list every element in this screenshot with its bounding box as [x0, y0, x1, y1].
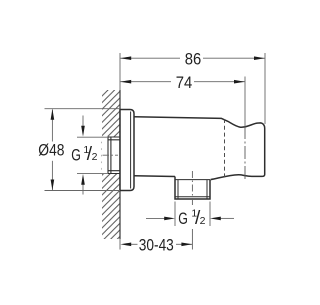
hose nipple G1/2 [175, 177, 210, 200]
hidden cone line (dashed) [224, 119, 226, 178]
svg-text:G: G [178, 209, 188, 228]
extension lines dim 86/74 left [119, 53, 121, 90]
G1/2 wall arrows [81, 116, 85, 195]
dimension D48 extension lines [45, 108, 121, 110]
body top edge and holder outline [134, 117, 265, 180]
in-wall thread socket G1/2 [108, 137, 120, 174]
wall hatch [102, 90, 121, 239]
dimension 30-43 [120, 236, 192, 255]
flange inner edge [130, 112, 132, 189]
svg-text:2: 2 [92, 151, 98, 163]
socket centerline [103, 154, 119, 156]
thread extension lines G1/2 wall [77, 136, 108, 138]
dimension G1/2 nipple [146, 202, 234, 227]
svg-text:2: 2 [200, 215, 206, 227]
svg-text:Ø48: Ø48 [38, 141, 64, 160]
dimension D48 [38, 109, 64, 190]
extension line dim 86 right [264, 53, 266, 124]
label G1/2 nipple [178, 208, 205, 229]
extension line dim 74 right [244, 77, 246, 127]
label G1/2 wall [71, 144, 97, 165]
holder centerline (dash-dot) [244, 126, 246, 181]
svg-text:86: 86 [185, 49, 202, 68]
wall face line [119, 90, 121, 239]
dimension 86 [120, 49, 264, 68]
escutcheon flange [120, 110, 134, 191]
nipple centerline (dash-dot) [191, 171, 193, 207]
dimension 74 [120, 73, 244, 92]
body bottom edge [134, 175, 175, 178]
svg-text:74: 74 [176, 73, 193, 92]
svg-text:30-43: 30-43 [139, 236, 174, 255]
svg-text:G: G [71, 145, 81, 164]
extension line 30-43 left [119, 239, 121, 250]
